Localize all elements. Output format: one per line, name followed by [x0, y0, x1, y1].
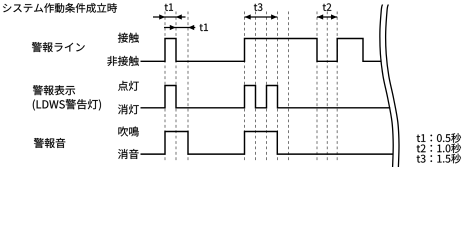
- dashed guide line x=288.5: [288, 12, 290, 162]
- dashed guide line x=266.5: [266, 12, 268, 162]
- state label 点灯: [118, 81, 139, 91]
- wire: 警報ライン waveform: [141, 39, 381, 62]
- dashed guide line x=188: [187, 12, 189, 162]
- dimension arrow t1 (first pulse width): [153, 16, 186, 18]
- dashed guide line x=165: [164, 12, 166, 162]
- dimension arrow t1 (second interval): [164, 27, 195, 29]
- wire: 警報表示 waveform: [141, 86, 391, 108]
- dashed guide line x=277.5: [277, 12, 279, 162]
- legend t3：1.5秒: [417, 154, 461, 164]
- dimension arrow t3: [245, 16, 278, 18]
- row label 警報表示: [33, 85, 75, 95]
- break mark curve 1: [380, 5, 393, 168]
- dashed guide line x=317: [316, 12, 318, 162]
- dashed guide line x=244.5: [244, 12, 246, 162]
- state label 接触: [118, 33, 139, 43]
- title システム作動条件成立時: [3, 3, 117, 13]
- break mark curve 2: [386, 5, 399, 168]
- state label 消灯: [118, 104, 139, 114]
- dashed guide line x=337.2: [336, 12, 338, 162]
- state label 消音: [118, 149, 139, 159]
- dimension arrow t2: [317, 16, 337, 18]
- row label 警報ライン: [32, 42, 85, 52]
- arrow label t1 (top): [165, 3, 173, 10]
- legend t2：1.0秒: [417, 143, 461, 153]
- dashed guide line x=327.3: [326, 12, 328, 162]
- arrow label t1 (right of second arrow): [200, 24, 208, 31]
- legend t1：0.5秒: [417, 133, 461, 143]
- dashed guide line x=176: [175, 12, 177, 162]
- arrow label t3: [254, 3, 262, 11]
- wire: 警報音 waveform: [141, 132, 393, 155]
- arrow label t2: [323, 3, 332, 11]
- row label (LDWS警告灯): [33, 99, 101, 110]
- dashed guide line x=255.5: [255, 12, 257, 162]
- state label 非接触: [107, 56, 139, 66]
- state label 吹鳴: [118, 127, 138, 137]
- row label 警報音: [34, 138, 65, 148]
